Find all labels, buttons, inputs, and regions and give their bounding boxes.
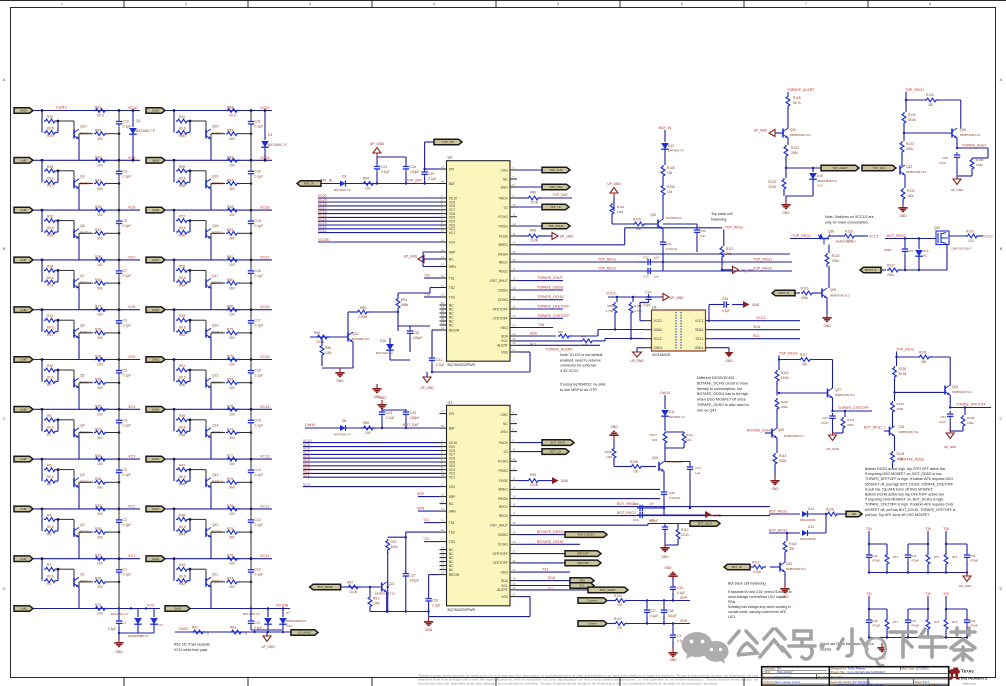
cell circuit Cell1: Q1, R2, R1, R32, R34, 1	[14, 554, 140, 609]
svg-text:Cell10: Cell10	[179, 627, 189, 631]
svg-text:NC: NC	[449, 502, 454, 506]
svg-text:WD: WD	[852, 512, 857, 516]
svg-text:200k: 200k	[801, 296, 808, 300]
net T33 on TS3	[424, 541, 440, 543]
svg-text:UP_GND: UP_GND	[944, 445, 957, 449]
svg-text:80.6k: 80.6k	[899, 372, 907, 376]
transistor Q22 MMBTA06LT1G	[381, 583, 383, 592]
power UP_GND right arrow	[722, 269, 733, 271]
svg-text:TS3: TS3	[449, 295, 455, 299]
svg-text:Cell3: Cell3	[21, 457, 27, 461]
tag BOT_WAKE	[310, 584, 341, 590]
capacitor C24 2.2uF	[376, 164, 378, 167]
tag BOT_ALERT on ALERT2	[517, 589, 588, 591]
svg-text:Q27: Q27	[835, 388, 841, 392]
svg-text:Cell19: Cell19	[152, 158, 160, 162]
svg-text:Public Release: Public Release	[848, 667, 866, 671]
svg-text:TOP_CPI: TOP_CPI	[442, 140, 454, 144]
svg-text:TOPAFE_CFETOFF is high. If bot: TOPAFE_CFETOFF is high. If bottom AFE re…	[865, 503, 954, 507]
power UP_GND c2	[946, 433, 954, 439]
svg-text:VCC1: VCC1	[869, 235, 879, 239]
svg-text:PACK: PACK	[499, 196, 509, 200]
svg-text:PACK: PACK	[499, 441, 509, 445]
svg-text:80.6: 80.6	[179, 525, 186, 529]
svg-text:LDO.: LDO.	[728, 615, 736, 619]
svg-text:TOPAFE_SHUT: TOPAFE_SHUT	[537, 276, 564, 280]
wire net VC0 (bottom AFE)	[303, 486, 440, 488]
svg-text:GND: GND	[823, 324, 831, 328]
svg-text:R63: R63	[230, 626, 236, 630]
svg-text:2.2µF: 2.2µF	[432, 604, 441, 608]
svg-text:0: 0	[245, 632, 247, 636]
svg-text:VC9: VC9	[128, 156, 135, 160]
svg-text:BSHUT_B: BSHUT_B	[865, 269, 877, 272]
svg-text:80.6: 80.6	[47, 276, 54, 280]
svg-text:11/11/2021: 11/11/2021	[916, 667, 930, 671]
svg-text:C25: C25	[410, 411, 416, 415]
svg-text:0.1µF: 0.1µF	[123, 324, 132, 328]
net label T34 on TS1	[424, 277, 440, 279]
svg-text:R105: R105	[633, 218, 641, 222]
svg-text:80.6: 80.6	[179, 326, 186, 330]
svg-text:friendly to consumption, but: friendly to consumption, but	[697, 387, 742, 391]
svg-text:BREG: BREG	[498, 243, 508, 247]
transistor Q21 BC846B,215	[347, 333, 349, 342]
svg-text:UP_GND: UP_GND	[630, 359, 644, 363]
wire net VC17	[318, 209, 440, 211]
svg-text:U1: U1	[448, 400, 453, 404]
svg-text:330k: 330k	[847, 423, 854, 427]
svg-text:0.022µF: 0.022µF	[669, 496, 681, 500]
svg-text:R80: R80	[227, 278, 233, 282]
svg-text:300: 300	[229, 336, 235, 340]
tag TOP_PCHG	[517, 225, 542, 227]
resistor R90 100	[362, 182, 376, 186]
svg-text:Q33: Q33	[934, 226, 940, 230]
svg-text:C48: C48	[872, 619, 878, 623]
capacitor C23 2.2uF	[381, 409, 383, 412]
svg-text:2.2µF: 2.2µF	[381, 170, 390, 174]
svg-text:R119: R119	[801, 287, 809, 291]
svg-text:100: 100	[97, 363, 103, 367]
svg-text:Current-: Current-	[588, 622, 598, 626]
svg-text:enabled, need to reserve: enabled, need to reserve	[560, 358, 601, 362]
svg-text:C12: C12	[254, 621, 260, 625]
svg-text:R11: R11	[47, 333, 53, 337]
svg-text:R40: R40	[95, 278, 101, 282]
resistor R126 56.7k	[786, 95, 790, 109]
svg-text:R111: R111	[686, 433, 693, 437]
cell circuit Cell5: Q5, R10, R9, R36, R38, 5	[14, 355, 140, 410]
svg-text:SCL: SCL	[548, 587, 555, 591]
svg-text:D: D	[3, 586, 6, 591]
svg-text:R36: R36	[95, 477, 101, 481]
resistor R95 10.0k	[316, 335, 330, 339]
svg-text:Q21: Q21	[352, 332, 358, 336]
svg-text:TIDA-010247: TIDA-010247	[774, 675, 790, 679]
svg-text:Number:: Number:	[763, 675, 774, 679]
svg-text:BOTAFE_DCHG: BOTAFE_DCHG	[537, 540, 564, 544]
svg-text:C6: C6	[123, 319, 127, 323]
diode D16 MMSZ4688T1G	[812, 168, 814, 172]
svg-text:80.6: 80.6	[179, 376, 186, 380]
svg-text:R62: NC if has separate: R62: NC if has separate	[174, 643, 210, 647]
svg-text:VCC2: VCC2	[983, 235, 993, 239]
svg-text:REG2: REG2	[499, 269, 508, 273]
svg-text:470pF: 470pF	[911, 559, 919, 563]
svg-text:Q10: Q10	[80, 125, 87, 129]
svg-text:UP_GND: UP_GND	[370, 142, 385, 146]
resistor R114 300k	[776, 438, 778, 454]
resistor R137 10.0	[949, 235, 966, 237]
svg-text:C47: C47	[822, 416, 828, 420]
svg-text:VC7: VC7	[128, 255, 135, 259]
svg-text:R82: R82	[227, 178, 233, 182]
svg-text:200k: 200k	[781, 405, 788, 409]
svg-text:TOPAFE_CFETOFF: TOPAFE_CFETOFF	[838, 406, 869, 410]
svg-text:80.6: 80.6	[47, 326, 54, 330]
svg-text:VCC2: VCC2	[654, 319, 663, 323]
svg-text:C: C	[3, 416, 6, 421]
capacitor CD2 1uF	[645, 261, 663, 263]
cell circuit Cell15: Q15, R51, R50, R79, R78, 16	[146, 355, 272, 410]
svg-text:BAT.2W9-7-F: BAT.2W9-7-F	[376, 351, 393, 355]
net T31 on TS1	[424, 522, 440, 524]
power UP_GND under C36b	[956, 176, 958, 179]
svg-text:R96: R96	[530, 229, 536, 233]
svg-text:C38: C38	[668, 609, 674, 613]
wire REGN	[517, 253, 790, 255]
ground below D10	[376, 384, 378, 388]
svg-text:Cell0: Cell0	[21, 607, 27, 611]
svg-text:C9: C9	[123, 169, 127, 173]
svg-text:160k: 160k	[907, 194, 914, 198]
svg-text:ALERT: ALERT	[497, 588, 508, 592]
capacitor C47 47pF	[831, 410, 833, 412]
ground below U3 right	[713, 347, 730, 349]
cell circuit Cell10: Q10, R20, R19, R41, R43, 10	[14, 106, 140, 161]
tag TOP_DSG	[517, 186, 542, 188]
svg-text:Q36: Q36	[828, 230, 834, 234]
op-amp/AFE IC U2 BQ7694202PWR	[440, 156, 518, 368]
svg-text:VC17: VC17	[260, 255, 270, 259]
resistor R104 4.70k	[632, 297, 634, 302]
svg-text:0.1µF: 0.1µF	[722, 309, 730, 313]
resistor R124 200k	[787, 138, 789, 146]
svg-text:TEXAS: TEXAS	[961, 669, 974, 674]
svg-text:U3: U3	[652, 306, 656, 310]
resistor R98 100 on SCL	[581, 339, 595, 343]
svg-text:0.1µF: 0.1µF	[123, 224, 132, 228]
svg-text:BREG: BREG	[498, 488, 508, 492]
wire net VC14	[318, 220, 440, 222]
svg-text:80.6: 80.6	[47, 226, 54, 230]
svg-text:Q1: Q1	[136, 119, 141, 123]
svg-text:BOT_REG2: BOT_REG2	[617, 511, 636, 515]
svg-text:R130: R130	[899, 367, 907, 371]
svg-text:Cell10: Cell10	[174, 607, 182, 611]
svg-text:0.1µF: 0.1µF	[123, 573, 132, 577]
net T38 on HDQ	[517, 327, 553, 329]
svg-text:10M: 10M	[325, 351, 332, 355]
svg-text:200k: 200k	[897, 407, 904, 411]
cell circuit Cell19: Q19, R59, R58, R83, R82, 20	[146, 155, 272, 210]
power UP_GND Q30 base	[769, 130, 775, 137]
svg-text:SDA1: SDA1	[695, 328, 704, 332]
svg-text:R102: R102	[614, 617, 622, 621]
svg-text:R131: R131	[919, 351, 927, 355]
cell circuit Cell18: Q18, R57, R56, R82, R81, 19	[146, 205, 272, 260]
svg-text:C13: C13	[255, 518, 261, 522]
svg-text:SDA: SDA	[501, 579, 509, 583]
resistor R99 4.70k	[616, 297, 618, 302]
svg-text:C41: C41	[666, 242, 672, 246]
svg-text:D9: D9	[342, 175, 346, 179]
ground below C1	[118, 638, 120, 642]
wire tag to CPI pin	[425, 141, 434, 143]
power GND right arrow balancing	[664, 514, 705, 516]
svg-text:R20: R20	[47, 115, 53, 119]
svg-text:TS2: TS2	[449, 286, 455, 290]
svg-text:TOP_REG1: TOP_REG1	[779, 352, 798, 356]
svg-text:100: 100	[229, 363, 235, 367]
wire net VC1 (bottom AFE)	[303, 476, 440, 478]
svg-text:100: 100	[229, 313, 235, 317]
svg-text:80.6: 80.6	[47, 475, 54, 479]
capacitor C48b 100pF	[904, 239, 906, 248]
svg-text:R117: R117	[800, 353, 808, 357]
svg-text:HDQ: HDQ	[500, 326, 508, 330]
svg-text:Cell14: Cell14	[152, 407, 160, 411]
svg-text:R56: R56	[179, 234, 185, 238]
svg-text:GND: GND	[714, 514, 722, 518]
svg-text:BOT_SHUT: BOT_SHUT	[698, 522, 713, 526]
svg-text:HDQ: HDQ	[500, 570, 508, 574]
svg-text:C5: C5	[123, 369, 127, 373]
svg-text:Q4: Q4	[80, 423, 85, 427]
svg-text:VC0: VC0	[147, 604, 154, 608]
tag BOT_PACK	[517, 442, 542, 444]
capacitor C30 2.2uF	[428, 596, 430, 599]
svg-text:DSG: DSG	[501, 185, 509, 189]
svg-text:300: 300	[97, 137, 103, 141]
svg-text:is pull low. Top AFE turns off: is pull low. Top AFE turns off DSG MOSFE…	[865, 487, 934, 491]
resistor R102 100	[607, 623, 614, 625]
svg-text:Sheet:: Sheet:	[915, 680, 923, 684]
svg-text:Bottom DDSG active high, top C: Bottom DDSG active high, top CFETOFF act…	[865, 467, 946, 471]
svg-text:TOP_BAT: TOP_BAT	[552, 193, 569, 197]
svg-text:to use MSP to do OTP.: to use MSP to do OTP.	[560, 388, 597, 392]
svg-text:Current+: Current+	[587, 599, 598, 603]
net TOPAFE_DDSG	[517, 289, 563, 291]
svg-text:TOPAFE_DCHG: TOPAFE_DCHG	[537, 295, 564, 299]
svg-text:R138: R138	[976, 158, 984, 162]
svg-text:100µF: 100µF	[668, 614, 677, 618]
wire net VC16	[318, 213, 440, 215]
svg-text:10.0k: 10.0k	[316, 340, 324, 344]
svg-text:D4: D4	[268, 133, 272, 137]
svg-text:300: 300	[928, 103, 934, 107]
svg-text:Q28: Q28	[786, 562, 792, 566]
wire VSS to UP_GND	[432, 371, 530, 373]
svg-text:Q6: Q6	[80, 324, 85, 328]
net SCL right	[713, 338, 801, 340]
TI logo	[949, 667, 988, 685]
svg-text:R18: R18	[47, 165, 53, 169]
resistor R96 10M	[321, 337, 323, 344]
svg-text:RT6: RT6	[952, 555, 958, 559]
svg-text:C37: C37	[650, 609, 656, 613]
svg-text:80.6: 80.6	[47, 425, 54, 429]
svg-text:T36: T36	[943, 527, 949, 531]
svg-text:UP_GND: UP_GND	[420, 386, 434, 390]
watermark text 公众号·小Q下午茶	[729, 628, 975, 667]
svg-text:BAT.2W9-7-F: BAT.2W9-7-F	[243, 612, 260, 616]
wire REG2 net TOP_REG2	[517, 270, 792, 272]
svg-text:BAT46W-7-F: BAT46W-7-F	[268, 143, 287, 147]
svg-text:R74: R74	[227, 577, 233, 581]
resistor R108 100	[630, 465, 644, 469]
svg-text:10.0k: 10.0k	[530, 239, 538, 243]
resistor R117 300	[799, 358, 813, 362]
svg-text:R107: R107	[650, 433, 658, 437]
svg-text:GND: GND	[378, 396, 386, 400]
svg-text:Mod. Date:: Mod. Date:	[902, 667, 915, 671]
resistor R86 10.0k on PACK	[517, 197, 527, 199]
svg-text:TOP_REG2: TOP_REG2	[725, 226, 743, 230]
svg-text:R97: R97	[558, 330, 564, 334]
ground Q21 emitter	[352, 342, 354, 369]
svg-text:R115: R115	[781, 400, 788, 404]
svg-text:10M: 10M	[373, 602, 380, 606]
svg-text:Bottom DCHG active low, top DF: Bottom DCHG active low, top DFETOFF acti…	[865, 493, 945, 497]
svg-text:0.1µF: 0.1µF	[255, 523, 264, 527]
svg-text:Q: Q	[863, 630, 889, 667]
svg-text:REG2: REG2	[499, 514, 508, 518]
svg-text:licensors do not warrant that: licensors do not warrant that the design…	[418, 682, 718, 686]
svg-text:TOP_ALERT: TOP_ALERT	[832, 166, 848, 170]
svg-text:DBLZ20W0L: DBLZ20W0L	[800, 518, 816, 522]
svg-text:BOT_REG1: BOT_REG1	[769, 510, 787, 514]
svg-text:MOSFET off, pull high BOT_DDSG: MOSFET off, pull high BOT_DDSG, TOPAFE_D…	[865, 482, 953, 486]
svg-text:300: 300	[726, 252, 732, 256]
svg-text:0.1µF: 0.1µF	[677, 591, 685, 595]
svg-text:100µF: 100µF	[410, 170, 419, 174]
svg-text:GND: GND	[115, 650, 123, 654]
svg-text:20.0: 20.0	[229, 114, 236, 118]
svg-text:D16: D16	[817, 174, 823, 178]
svg-text:B: B	[1000, 246, 1003, 251]
svg-text:BOT_ALERT: BOT_ALERT	[600, 588, 616, 592]
svg-text:1µF: 1µF	[654, 275, 659, 279]
svg-text:BAT: BAT	[449, 182, 455, 186]
wire CPI top rail	[376, 157, 378, 165]
svg-text:VC18: VC18	[260, 206, 270, 210]
svg-text:R123: R123	[768, 180, 776, 184]
svg-text:100µF: 100µF	[410, 579, 419, 583]
power UP_GND mid	[829, 435, 837, 441]
svg-text:TOP_CHG: TOP_CHG	[549, 168, 562, 172]
wire REGN2r	[517, 498, 660, 500]
svg-text:100: 100	[229, 163, 235, 167]
svg-text:CFETOFF: CFETOFF	[577, 561, 590, 565]
watermark wechat icon	[682, 632, 729, 664]
svg-text:R112: R112	[726, 247, 734, 251]
capacitor C37 0.1uF	[646, 601, 648, 609]
svg-text:C4: C4	[123, 418, 127, 422]
wire net VC18	[318, 205, 440, 207]
resistor R134 80.6k	[902, 112, 906, 126]
cell circuit Cell17: Q17, R55, R54, R81, R80, 18	[146, 255, 272, 310]
svg-text:C3: C3	[677, 634, 681, 638]
svg-text:20.0: 20.0	[97, 114, 104, 118]
transistor Q36 MMBTA06LT1G	[818, 235, 830, 245]
svg-text:VSS: VSS	[501, 350, 508, 354]
svg-text:SDA: SDA	[501, 334, 509, 338]
power UP_GND at SRP/NC pins	[418, 256, 424, 263]
resistor R133 200k	[900, 141, 904, 155]
svg-text:TOPAFE_SHUT: TOPAFE_SHUT	[962, 144, 986, 148]
svg-text:80.6: 80.6	[179, 475, 186, 479]
svg-text:R6: R6	[47, 464, 51, 468]
svg-text:SCL: SCL	[501, 339, 508, 343]
net TOPAFE_DFETOFF	[517, 308, 563, 310]
svg-text:SRP: SRP	[449, 250, 457, 254]
svg-text:R120: R120	[826, 508, 834, 512]
svg-text:turn on Q47.: turn on Q47.	[697, 408, 718, 412]
diode D6 BAT46W-7-F column2	[267, 609, 269, 618]
svg-text:0.1µF: 0.1µF	[123, 423, 132, 427]
resistor R128b 180k	[894, 436, 896, 452]
svg-text:C40: C40	[669, 491, 675, 495]
svg-text:R92: R92	[391, 540, 397, 544]
transistor Q27 MMBTA06LT1G	[827, 389, 829, 398]
wire net VC3 (bottom AFE)	[303, 469, 440, 471]
power UP_GND rc1	[966, 573, 968, 577]
cell circuit Cell6: Q6, R12, R11, R37, R39, 6	[14, 305, 140, 360]
svg-text:TOPAFE_DFETOFF is high. If bo: TOPAFE_DFETOFF is high. If bottom AFE re…	[865, 477, 953, 481]
svg-text:SHUT_DDSG: SHUT_DDSG	[578, 533, 595, 537]
svg-text:Q29: Q29	[830, 288, 836, 292]
svg-text:CPI: CPI	[449, 167, 455, 171]
svg-text:R83: R83	[227, 129, 233, 133]
svg-text:80.6: 80.6	[179, 226, 186, 230]
svg-text:A: A	[1000, 77, 1003, 82]
cell circuit Cell8: Q8, R16, R15, R39, R41, 8	[14, 205, 140, 260]
cell circuit Cell13: Q13, R47, R46, R77, R76, 14	[146, 454, 272, 509]
svg-text:RT5: RT5	[952, 620, 958, 624]
svg-text:VC13: VC13	[260, 455, 270, 459]
resistor R120	[826, 512, 840, 516]
svg-text:R38: R38	[95, 378, 101, 382]
svg-text:R55: R55	[179, 264, 185, 268]
svg-text:0.1µF: 0.1µF	[255, 125, 264, 129]
svg-text:VCC2: VCC2	[756, 316, 766, 320]
svg-text:Cell20: Cell20	[152, 109, 160, 113]
svg-text:300: 300	[229, 585, 235, 589]
svg-text:REGN: REGN	[498, 252, 508, 256]
svg-text:MMBTA06LT1G: MMBTA06LT1G	[906, 170, 927, 174]
power UP_GND right of C34	[663, 294, 669, 301]
svg-text:R100: R100	[605, 450, 613, 454]
svg-text:BAT_IN: BAT_IN	[659, 126, 672, 130]
svg-text:BAT46W-7-F: BAT46W-7-F	[136, 129, 155, 133]
resistor R107 619	[663, 432, 667, 446]
svg-text:ALERT: ALERT	[497, 344, 508, 348]
svg-text:C34: C34	[645, 291, 651, 295]
svg-text:C28: C28	[413, 331, 419, 335]
svg-text:R42: R42	[95, 178, 101, 182]
